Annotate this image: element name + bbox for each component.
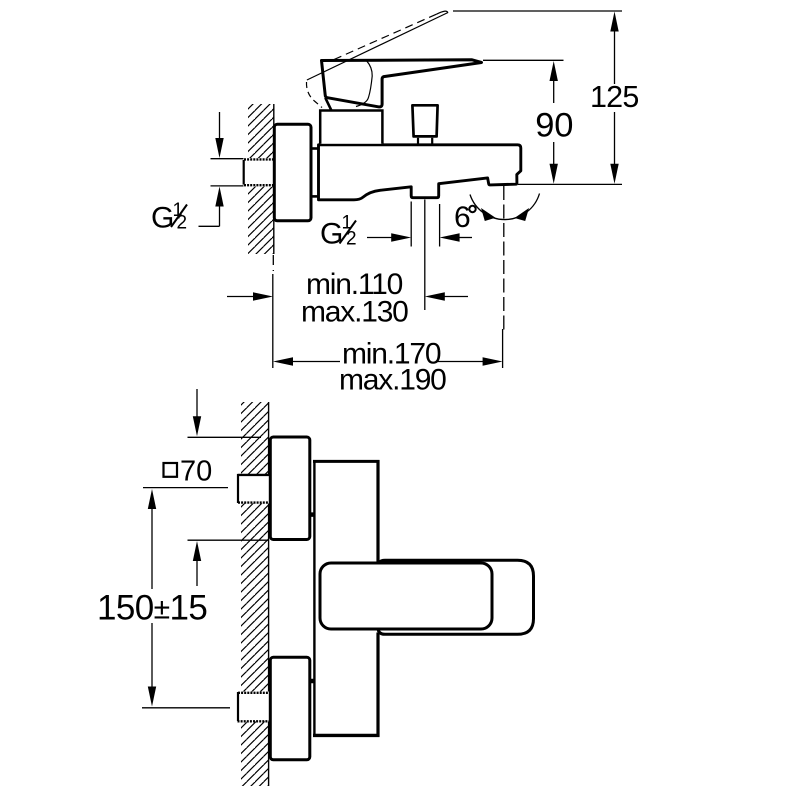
svg-text:G: G	[151, 202, 173, 235]
svg-text:2: 2	[177, 213, 188, 234]
svg-text:max.190: max.190	[339, 364, 446, 397]
svg-text:G: G	[320, 218, 342, 251]
svg-text:2: 2	[346, 229, 357, 250]
svg-text:150±15: 150±15	[97, 589, 207, 628]
svg-text:70: 70	[180, 456, 212, 488]
svg-text:max.130: max.130	[301, 296, 408, 329]
svg-text:125: 125	[590, 80, 639, 114]
svg-text:90: 90	[535, 106, 573, 144]
svg-text:6: 6	[454, 201, 470, 234]
